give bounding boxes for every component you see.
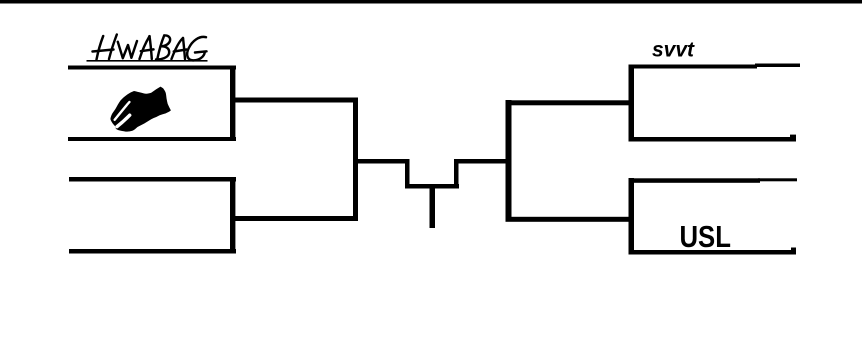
svg-text:svvt: svvt (652, 39, 695, 62)
svg-text:USL: USL (680, 220, 731, 255)
